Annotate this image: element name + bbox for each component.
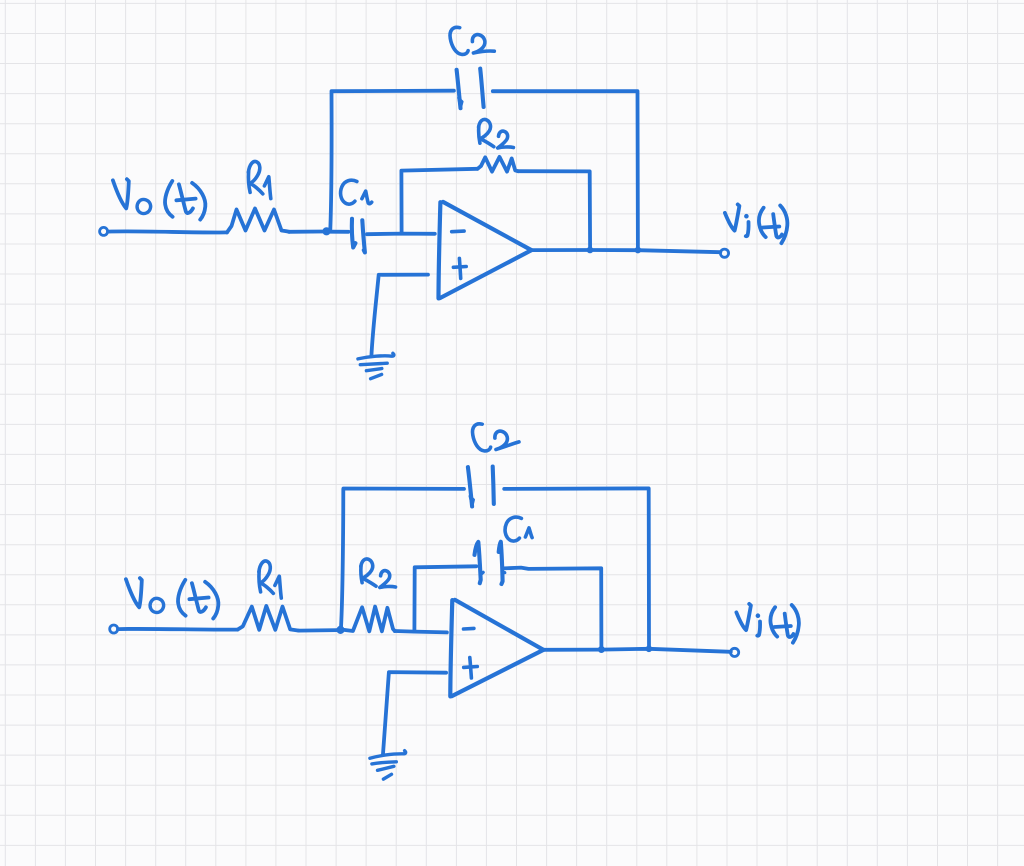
label Vo(t) (top) [113,179,205,219]
wire: R1 to input node (bottom) [299,628,337,632]
feedback C2 loop: riser from node and top-left wire (bottom) [341,489,464,628]
op-amp U1 plus sign [453,258,466,278]
label C2 (bottom) [473,424,519,451]
junction dot C2/output (bottom) [646,646,651,651]
resistor R2 (top) [478,157,519,172]
label Vo(t) (bottom) [126,578,218,618]
capacitor C1 (top) [352,219,365,253]
label R2 (bottom) [361,559,396,588]
output terminal (bottom) [731,648,739,656]
op-amp U2 (bottom) [450,600,543,697]
label C2 (top) [450,27,494,54]
wire: R2 to output junction riser (top) [518,171,590,250]
label R1 (top) [248,161,270,198]
node junction (top) [323,228,329,234]
wire: R2 to op-amp inverting input (bottom) [395,631,447,632]
wire: input terminal to R1 (top) [108,231,227,232]
label R2 (top) [479,119,514,148]
feedback C2 loop: riser from node and top-left wire (top) [330,91,454,230]
capacitor C1 (bottom) [475,542,505,584]
wire: C1 to output junction riser (bottom) [504,568,602,650]
op-amp U2 plus sign [464,658,478,679]
ground (bottom) [370,751,406,779]
label C1 (bottom) [505,517,532,541]
wire: non-inverting input to ground (top) [371,275,428,357]
feedback C1 loop: riser and top-left wire (bottom) [414,566,476,631]
wire: op-amp output to terminal (bottom) [543,649,730,652]
label Vi(t) (top) [725,204,787,243]
resistor R1 (top) [227,209,289,233]
wire: non-inverting input to ground (bottom) [383,672,446,755]
label R1 (bottom) [259,561,281,598]
capacitor C2 (top) [457,69,484,109]
capacitor C2 (bottom) [468,467,494,507]
label Vi(t) (bottom) [736,604,798,643]
feedback R2 loop: riser and left top wire (top) [401,169,477,234]
ground (top) [358,353,394,378]
input terminal (bottom circuit) [110,625,118,633]
resistor R1 (bottom) [238,606,299,631]
node junction (bottom) [337,627,343,633]
wire: input terminal to R1 (bottom) [118,627,238,632]
wire: C1 to op-amp inverting input (top) [367,232,435,236]
wire: C2 to output junction riser (top) [493,91,638,250]
input terminal (top circuit) [100,227,108,235]
op-amp U1 minus sign [452,229,464,233]
junction dot C2/output (top) [635,248,640,253]
op-amp U2 minus sign [464,627,474,631]
op-amp U1 (top) [439,202,532,299]
output terminal (top) [720,249,728,257]
wire: C2 to output junction riser (bottom) [504,488,649,648]
wire: op-amp output to terminal (top) [531,250,720,252]
junction dot C1/output (bottom) [599,647,605,653]
wire: R1 to input node (top) [289,230,323,234]
resistor R2 (bottom) [344,607,395,632]
junction dot R2/output (top) [587,247,592,252]
wire: node to C1 (top) [330,230,349,234]
label C1 (top) [341,180,372,204]
